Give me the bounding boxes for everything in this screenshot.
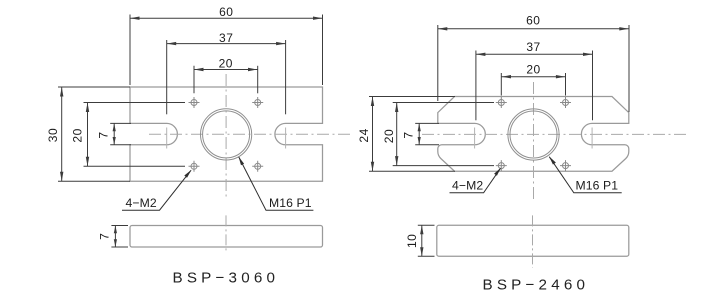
svg-text:20: 20 — [382, 129, 396, 143]
dimension 37 (slot centers) — [167, 40, 286, 114]
dimension 7 (slot width) — [110, 123, 131, 144]
vertical centerline — [533, 82, 535, 202]
hole M2 top-right — [560, 97, 571, 108]
dimension 10 (thickness) — [418, 225, 435, 256]
hole M2 bottom-left — [189, 161, 200, 172]
leader M16 P1 — [239, 157, 314, 210]
side view plate t=10 — [437, 225, 629, 256]
dimension 20 (hole spacing horizontal) — [501, 73, 565, 96]
svg-text:7: 7 — [96, 131, 110, 138]
slot cap center mark right — [591, 128, 593, 149]
svg-text:60: 60 — [219, 5, 233, 19]
hole M2 bottom-right — [560, 160, 571, 171]
M16 P1 tapped hole inner circle — [510, 111, 557, 158]
svg-text:60: 60 — [526, 13, 540, 27]
svg-text:20: 20 — [219, 57, 233, 71]
slot cap center mark left — [474, 128, 476, 149]
dimension 7 (slot width) — [415, 123, 439, 144]
svg-text:37: 37 — [219, 31, 233, 45]
dimension 20 (hole spacing vertical) — [84, 103, 186, 167]
M16 P1 tapped hole outer circle — [201, 109, 252, 160]
slot cap center mark left — [166, 128, 168, 149]
svg-text:20: 20 — [526, 63, 540, 77]
hole M2 top-left — [496, 97, 507, 108]
dimension 60 (top) — [130, 15, 323, 86]
svg-text:30: 30 — [46, 128, 60, 142]
dimension 7 (thickness) — [111, 226, 128, 248]
leader M16 P1 — [549, 157, 621, 193]
side view plate t=7 — [130, 226, 323, 248]
hole M2 top-left — [189, 97, 200, 108]
plate outline BSP-2460 (60x24, chamfered corners, side slots) — [438, 97, 629, 172]
horizontal centerline — [149, 133, 351, 135]
vertical centerline — [225, 74, 227, 197]
side view centerline — [532, 215, 534, 267]
horizontal centerline — [422, 133, 686, 135]
svg-text:20: 20 — [70, 128, 84, 142]
dimension 60 (top) — [438, 25, 629, 112]
svg-text:10: 10 — [405, 234, 419, 248]
dimension 20 (hole spacing vertical) — [393, 103, 494, 166]
svg-text:24: 24 — [357, 128, 371, 142]
plate outline BSP-3060 (60x30 with side slots) — [130, 87, 323, 181]
svg-text:BSP−2460: BSP−2460 — [483, 277, 590, 294]
svg-text:7: 7 — [97, 233, 111, 240]
hole M2 bottom-right — [252, 161, 263, 172]
hole M2 bottom-left — [496, 160, 507, 171]
side view centerline — [225, 215, 227, 251]
svg-text:M16 P1: M16 P1 — [269, 196, 312, 210]
dimension 20 (hole spacing horizontal) — [194, 66, 258, 94]
svg-text:4−M2: 4−M2 — [452, 178, 483, 192]
dimension 37 (slot centers) — [476, 51, 593, 121]
M16 P1 tapped hole outer circle — [508, 109, 559, 160]
svg-text:7: 7 — [401, 131, 415, 138]
leader 4-M2 — [122, 170, 191, 210]
svg-text:4−M2: 4−M2 — [126, 196, 157, 210]
svg-text:BSP−3060: BSP−3060 — [173, 270, 280, 287]
slot cap center mark right — [285, 128, 287, 149]
dimension 30 (plate height) — [58, 87, 130, 181]
M16 P1 tapped hole inner circle — [203, 111, 250, 158]
leader 4-M2 — [450, 168, 501, 193]
svg-text:M16 P1: M16 P1 — [576, 178, 619, 192]
svg-text:37: 37 — [526, 40, 540, 54]
hole M2 top-right — [252, 97, 263, 108]
dimension 24 (plate height) — [369, 97, 455, 172]
